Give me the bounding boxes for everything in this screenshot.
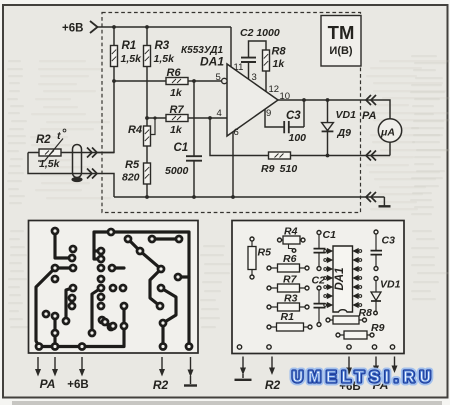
C1 layout <box>318 233 320 269</box>
svg-text:C1: C1 <box>323 229 337 241</box>
R3 layout <box>269 306 307 308</box>
IC DA1 layout <box>333 246 353 312</box>
svg-text:R6: R6 <box>167 67 182 79</box>
ground right <box>376 197 384 206</box>
svg-text:C2 1000: C2 1000 <box>240 27 280 39</box>
op-amp DA1 <box>227 64 278 136</box>
svg-text:C3: C3 <box>382 235 396 247</box>
chevron R2 bottom <box>87 169 97 179</box>
wire node row to pin5 <box>114 80 222 82</box>
svg-text:VD1: VD1 <box>380 279 401 291</box>
faint page show-through <box>7 55 449 328</box>
bottom scan shadow band <box>12 401 442 405</box>
resistor R6 <box>166 78 188 85</box>
R7 layout <box>269 287 307 289</box>
node rail/R3 <box>145 25 149 29</box>
diode VD1 <box>327 100 329 156</box>
svg-text:C3: C3 <box>286 110 301 122</box>
capacitor C3 loop pin9 <box>265 100 304 127</box>
ground rail <box>114 196 376 198</box>
svg-text:9: 9 <box>266 108 271 119</box>
svg-text:PA: PA <box>40 377 56 391</box>
svg-text:3: 3 <box>252 72 257 83</box>
svg-text:+6В: +6В <box>67 379 88 391</box>
resistor R4 with tap <box>146 118 148 163</box>
wire pin6 <box>232 132 234 198</box>
svg-text:R4: R4 <box>284 226 298 238</box>
svg-text:R5: R5 <box>258 247 272 259</box>
svg-text:+6В: +6В <box>62 23 83 35</box>
svg-text:4: 4 <box>217 108 222 119</box>
svg-text:μА: μА <box>380 127 395 139</box>
svg-text:R1: R1 <box>281 311 295 323</box>
svg-text:1,5k: 1,5k <box>154 53 176 65</box>
svg-text:R9: R9 <box>371 322 385 334</box>
wire pin11 <box>230 27 232 67</box>
svg-text:R8: R8 <box>359 307 373 319</box>
svg-text:PA: PA <box>362 110 377 122</box>
R9 layout <box>338 334 372 336</box>
resistor R3 <box>146 27 148 118</box>
svg-text:1k: 1k <box>273 58 286 70</box>
svg-text:R2: R2 <box>265 378 281 392</box>
svg-text:C1: C1 <box>174 142 189 154</box>
wire R2 loop <box>28 152 114 154</box>
meter PA <box>376 100 390 156</box>
svg-text:1k: 1k <box>170 87 183 99</box>
R6 layout <box>269 267 307 269</box>
C2 layout <box>318 288 320 325</box>
svg-text:100: 100 <box>289 132 307 144</box>
ground lead left <box>190 357 192 372</box>
TM box <box>321 16 361 67</box>
svg-text:1k: 1k <box>170 124 183 136</box>
svg-text:VD1: VD1 <box>336 109 357 121</box>
resistor R8 <box>263 50 270 71</box>
resistor R7 <box>166 115 188 122</box>
R4 layout <box>280 239 304 241</box>
R1 layout <box>269 326 310 328</box>
R8 layout <box>328 319 365 321</box>
svg-text:R6: R6 <box>283 253 297 265</box>
svg-text:ТМ: ТМ <box>328 22 355 43</box>
svg-text:12: 12 <box>269 84 280 95</box>
svg-text:R4: R4 <box>128 124 142 136</box>
svg-text:6: 6 <box>234 127 239 138</box>
VD1 layout <box>375 279 377 314</box>
svg-text:R3: R3 <box>155 40 170 52</box>
svg-text:t: t <box>57 130 61 142</box>
bottom connection pads <box>237 345 241 349</box>
svg-text:DA1: DA1 <box>334 267 346 290</box>
svg-text:R9 510: R9 510 <box>261 163 297 175</box>
svg-text:UMELTSI.RU: UMELTSI.RU <box>292 369 436 386</box>
dashed schematic boundary <box>102 13 361 213</box>
right layout board <box>232 221 404 354</box>
svg-text:5: 5 <box>216 72 221 83</box>
resistor R5 <box>146 184 148 197</box>
wire +6V rail <box>98 26 232 28</box>
svg-text:R3: R3 <box>284 293 298 305</box>
+6V input arrow <box>90 21 98 33</box>
resistor R9 <box>269 152 291 159</box>
capacitor C2 <box>241 58 256 62</box>
connector plug <box>73 145 82 178</box>
left PCB board <box>29 221 199 354</box>
svg-text:1,5k: 1,5k <box>39 158 61 170</box>
wire R2 sense drop <box>97 81 114 153</box>
wire R7 row to pin4 <box>147 117 227 119</box>
chevron out mid <box>366 151 376 161</box>
connector ground lug <box>71 177 82 182</box>
capacitor C1 <box>193 81 195 197</box>
feedback wire / R9 row <box>210 118 376 156</box>
svg-text:5000: 5000 <box>165 165 189 177</box>
C3 layout <box>375 232 377 269</box>
chevron out gnd <box>366 192 376 202</box>
thermistor R2 <box>39 149 61 156</box>
output wire pin10 <box>278 99 376 101</box>
svg-text:R2: R2 <box>153 378 169 392</box>
left PCB traces <box>36 231 189 347</box>
chevron R2 top <box>87 148 97 158</box>
chevron out top <box>366 95 376 105</box>
svg-text:И(В): И(В) <box>329 45 353 57</box>
svg-text:R8: R8 <box>272 46 287 58</box>
svg-text:11: 11 <box>234 62 244 73</box>
svg-text:R7: R7 <box>283 274 298 286</box>
svg-text:DA1: DA1 <box>200 55 224 69</box>
svg-text:1,5k: 1,5k <box>121 53 143 65</box>
right board leads <box>242 357 244 370</box>
left PCB pads <box>36 228 192 350</box>
svg-text:Д9: Д9 <box>337 127 352 139</box>
svg-text:C2: C2 <box>312 275 326 287</box>
svg-text:R2: R2 <box>36 134 51 146</box>
svg-text:820: 820 <box>122 172 140 184</box>
resistor R1 <box>113 27 115 81</box>
R5 layout <box>251 239 253 277</box>
svg-text:R7: R7 <box>170 104 185 116</box>
svg-text:R5: R5 <box>125 159 140 171</box>
svg-text:R1: R1 <box>122 40 137 52</box>
node rail/R1 <box>112 25 116 29</box>
left board leads <box>37 357 39 371</box>
